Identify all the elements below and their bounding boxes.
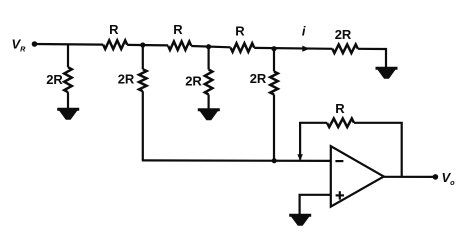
node B junction dot <box>206 44 211 49</box>
resistor R6 (2R branch 2, vertical) <box>139 69 147 91</box>
wire: non-inverting input to ground <box>300 195 331 216</box>
svg-text:2R: 2R <box>46 72 63 87</box>
node Vo output terminal dot <box>433 174 439 180</box>
svg-text:2R: 2R <box>118 72 135 87</box>
svg-text:i: i <box>302 24 306 39</box>
wire: op-amp output <box>384 176 436 178</box>
wire: branch2 bottom lead down to bus corner <box>142 91 144 160</box>
wire: branch2 top lead <box>142 45 144 69</box>
resistor R4 (2R termination, horizontal) <box>332 44 358 53</box>
node D junction dot branch4-bus <box>272 158 277 163</box>
resistor R9 (feedback R, horizontal) <box>327 119 354 128</box>
op-amp U1 triangle <box>331 146 384 206</box>
ground G1 (top right) <box>376 68 398 79</box>
ground G3 (branch 3) <box>198 110 220 121</box>
wire: branch3 top lead <box>208 47 210 70</box>
wire: 2R termination to ground drop <box>358 49 386 68</box>
svg-text:R: R <box>173 22 183 37</box>
wire: branch1 bottom lead <box>67 92 69 109</box>
op-amp non-inverting input plus sign <box>336 191 344 199</box>
op-amp inverting input minus sign <box>335 160 343 162</box>
wire top rail: R3 to 2R termination <box>254 47 332 50</box>
wire: branch4 top lead <box>273 49 275 72</box>
resistor R3 (R, horizontal) <box>231 43 255 52</box>
svg-text:R: R <box>235 24 245 39</box>
resistor R8 (2R branch 4, vertical) <box>270 72 278 95</box>
node C junction dot <box>271 46 276 51</box>
wire: branch1 top lead <box>67 44 69 67</box>
resistor R2 (R, horizontal) <box>168 41 191 50</box>
svg-text:2R: 2R <box>335 27 352 42</box>
ground G2 (branch 1) <box>57 109 79 120</box>
wire: summing bus to op-amp inverting input <box>142 159 331 162</box>
wire: branch3 bottom lead <box>208 95 210 110</box>
node VR input terminal dot <box>32 41 38 47</box>
resistor R7 (2R branch 3, vertical) <box>205 70 213 95</box>
svg-text:R: R <box>335 101 345 116</box>
wire: feedback left riser from bus <box>300 123 327 160</box>
svg-text:2R: 2R <box>185 73 202 88</box>
wire: branch4 bottom lead to bus <box>273 95 275 161</box>
wire top rail: R2 to R3 <box>191 46 230 47</box>
current arrow into summing node (down) <box>297 154 303 160</box>
wire top rail: VR node to R1 <box>35 43 104 46</box>
resistor R1 (R, horizontal) <box>103 40 127 49</box>
current arrow i on top rail <box>302 46 309 52</box>
svg-text:R: R <box>109 22 119 37</box>
node A junction dot <box>140 42 145 47</box>
ground G4 (op-amp plus input) <box>289 215 311 226</box>
wire top rail: R1 to R2 <box>127 44 168 47</box>
svg-text:2R: 2R <box>250 71 267 86</box>
wire: feedback top right and drop to output <box>354 123 402 177</box>
resistor R5 (2R branch 1, vertical) <box>64 67 72 92</box>
